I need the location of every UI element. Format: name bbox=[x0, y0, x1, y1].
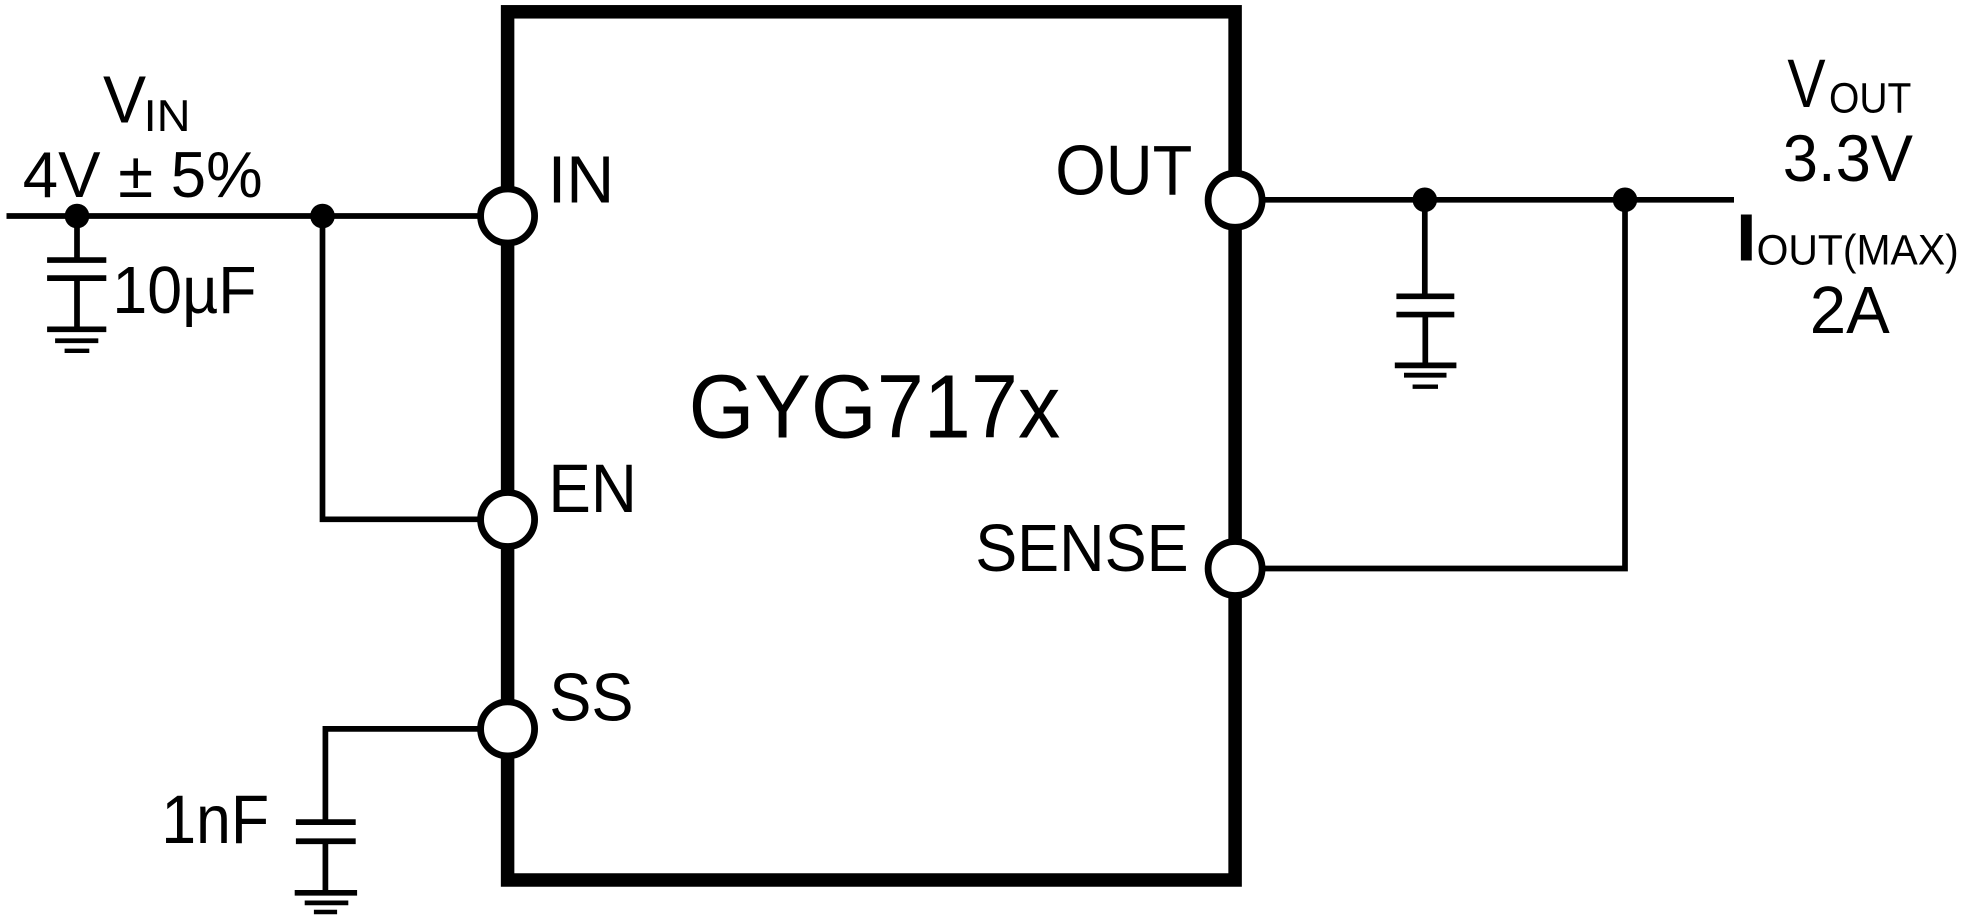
svg-text:OUT: OUT bbox=[1829, 75, 1911, 123]
svg-text:2A: 2A bbox=[1810, 274, 1891, 348]
svg-text:GYG717x: GYG717x bbox=[689, 357, 1061, 458]
svg-text:3.3V: 3.3V bbox=[1783, 121, 1913, 195]
svg-text:IN: IN bbox=[548, 142, 615, 217]
svg-text:1nF: 1nF bbox=[161, 781, 269, 858]
svg-text:10µF: 10µF bbox=[112, 253, 256, 328]
svg-text:V: V bbox=[1787, 45, 1825, 122]
svg-text:OUT(MAX): OUT(MAX) bbox=[1757, 227, 1959, 275]
svg-text:OUT: OUT bbox=[1055, 131, 1192, 210]
svg-text:SENSE: SENSE bbox=[975, 512, 1188, 586]
svg-text:IN: IN bbox=[144, 92, 191, 141]
svg-text:V: V bbox=[103, 63, 146, 138]
svg-text:EN: EN bbox=[548, 450, 637, 527]
svg-text:SS: SS bbox=[549, 659, 633, 735]
svg-text:4V ± 5%: 4V ± 5% bbox=[23, 138, 263, 211]
